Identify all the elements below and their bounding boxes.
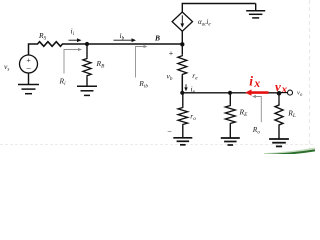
ground [77, 77, 97, 95]
node E (emitter) [180, 91, 184, 95]
resistor RB [83, 44, 105, 77]
svg-text:B: B [154, 33, 160, 42]
node (RB junction) [85, 42, 89, 46]
wire [182, 92, 279, 94]
voltage source vs [4, 55, 38, 74]
output resistance arrow Ro [252, 95, 261, 135]
wire [181, 76, 183, 93]
terminal vo [288, 90, 303, 98]
input resistance arrow Ri [59, 48, 83, 87]
wire [64, 43, 182, 45]
wire [279, 92, 287, 94]
resistor ro [178, 93, 196, 126]
controlled current source alpha_ac ie (U1) [172, 12, 211, 31]
wire [29, 44, 37, 55]
node B [154, 33, 185, 46]
current arrow i_i [69, 27, 82, 43]
current arrow i_b [114, 31, 137, 42]
svg-text:−: − [167, 127, 172, 136]
node vx [277, 91, 282, 96]
current arrow i_e [184, 84, 195, 95]
ground [18, 73, 39, 94]
wire [182, 4, 255, 13]
svg-text:−: − [25, 64, 31, 74]
ground [246, 4, 265, 18]
resistor RL [275, 93, 296, 139]
test current arrow ix (red) [245, 74, 268, 96]
ground [269, 139, 289, 146]
resistor RS [36, 31, 64, 46]
resistor re [178, 44, 198, 82]
ground [221, 138, 240, 145]
node (RE junction) [228, 91, 232, 95]
input resistance arrow Rib [136, 45, 149, 90]
ground [173, 126, 192, 145]
wire [181, 31, 183, 44]
svg-text:+: + [168, 49, 173, 58]
resistor RE [225, 93, 248, 138]
